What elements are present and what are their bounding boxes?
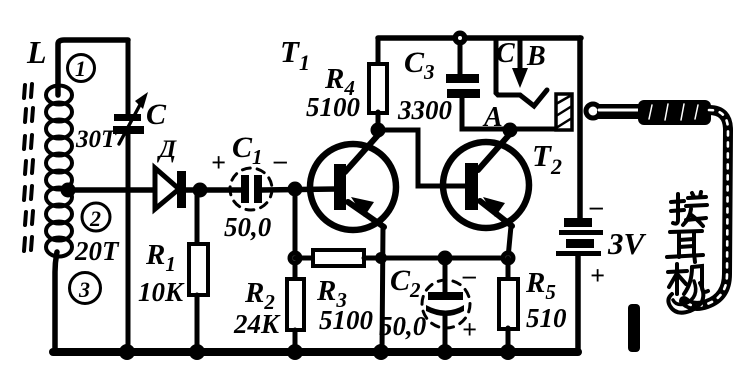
node coil tap <box>61 183 76 198</box>
svg-text:30T: 30T <box>75 126 118 153</box>
ferrite core dashes <box>24 84 33 251</box>
svg-text:50,0: 50,0 <box>379 311 427 341</box>
jack sleeve contact (hatched) <box>556 94 572 130</box>
svg-text:A: A <box>482 102 503 133</box>
node C1/R2 <box>288 182 303 197</box>
wire right side of tank circuit (upper) <box>126 40 131 114</box>
T1 collector <box>345 134 379 172</box>
svg-text:Д: Д <box>157 136 177 163</box>
terminal 1 circled <box>68 55 95 82</box>
svg-text:C: C <box>496 38 515 69</box>
label ji (machine) hanzi <box>668 264 708 294</box>
node T2 collector <box>503 123 518 138</box>
T2 emitter <box>480 201 512 226</box>
earphone cord end hooks <box>668 283 703 313</box>
svg-text:–: – <box>462 261 476 290</box>
top rail wire <box>378 35 581 41</box>
earphone plug body <box>638 100 711 125</box>
wire main signal line: tap to diode <box>66 187 155 193</box>
terminal 2 circled <box>82 203 110 231</box>
svg-text:5100: 5100 <box>306 92 361 122</box>
wire C3 bottom to jack <box>462 98 560 129</box>
node tank bottom <box>119 344 135 360</box>
earphone cord <box>684 110 728 306</box>
wire diode cathode to C1 <box>186 187 243 193</box>
wire bias line R2 to R3 <box>295 256 315 261</box>
svg-text:B: B <box>526 41 546 72</box>
jack spring contact <box>520 90 547 106</box>
variable capacitor C plates <box>113 114 144 134</box>
wire T1 collector to T2 base <box>378 130 466 186</box>
variable capacitor C arrow <box>119 101 142 144</box>
capacitor C2 electrolytic <box>443 258 448 293</box>
terminal 3 circled <box>70 273 101 304</box>
battery B 3V <box>564 218 592 227</box>
wire top of tank circuit <box>58 40 128 95</box>
right rail wire (battery to bottom) <box>575 256 581 352</box>
resistor R3 <box>313 250 364 266</box>
T1 emitter <box>348 202 384 227</box>
resistor R1 <box>195 190 200 246</box>
svg-text:20T: 20T <box>74 236 120 266</box>
node T1 collector <box>371 123 386 138</box>
right rail wire (top to battery) <box>577 38 583 219</box>
wire right side of tank circuit (lower) <box>126 134 131 352</box>
svg-text:+: + <box>462 315 477 344</box>
wire T1 emitter down <box>382 226 383 352</box>
svg-text:+: + <box>590 261 605 290</box>
svg-text:5100: 5100 <box>319 305 374 335</box>
svg-text:+: + <box>211 148 226 177</box>
ink bar mark <box>628 304 640 352</box>
label er (ear) hanzi <box>667 231 703 262</box>
diode D cathode bar <box>177 171 186 208</box>
label jie (connect) hanzi <box>671 192 707 226</box>
wire C1 to T1 base <box>262 189 336 190</box>
wire bottom left of tank circuit <box>55 252 57 348</box>
capacitor C3 <box>458 38 463 75</box>
bottom rail wire <box>53 348 578 356</box>
svg-text:C: C <box>146 98 167 131</box>
svg-text:L: L <box>26 34 47 70</box>
svg-text:510: 510 <box>526 303 567 333</box>
node T2 emitter/R5 <box>501 251 516 266</box>
resistor R2 <box>293 189 298 281</box>
earphone plug shaft <box>597 104 640 119</box>
resistor R5 <box>506 258 511 281</box>
wire T2 emitter down <box>508 226 511 258</box>
svg-text:3V: 3V <box>607 226 647 261</box>
svg-text:–: – <box>589 192 603 221</box>
node T1 emitter bottom <box>373 344 389 360</box>
transistor T2 <box>443 142 529 228</box>
inductor L coil <box>46 86 72 257</box>
resistor R4 <box>376 38 381 66</box>
jack plug tip B with arrow <box>518 40 523 70</box>
svg-text:3300: 3300 <box>397 95 453 125</box>
node diode/R1 <box>193 183 208 198</box>
diode D body <box>155 168 179 209</box>
svg-text:24K: 24K <box>233 309 281 339</box>
node R5 bottom <box>500 344 516 360</box>
node R1 bottom <box>189 344 205 360</box>
svg-text:–: – <box>273 146 287 175</box>
svg-text:50,0: 50,0 <box>224 212 272 242</box>
node R3/T1 emitter <box>375 252 387 264</box>
svg-text:1: 1 <box>75 56 86 81</box>
node R2/R3 <box>288 251 303 266</box>
wire R3 to C2/T2 emitter <box>364 256 508 261</box>
svg-text:2: 2 <box>89 206 101 231</box>
earphone plug tip <box>586 104 600 118</box>
jack contact C line <box>496 40 520 95</box>
T2 collector <box>478 130 510 170</box>
transistor T1 <box>310 144 396 230</box>
capacitor C1 electrolytic <box>230 168 272 210</box>
node C2 top <box>438 251 453 266</box>
node R2 bottom <box>287 344 303 360</box>
svg-text:10K: 10K <box>138 277 185 307</box>
svg-text:3: 3 <box>78 277 90 302</box>
node C3 top <box>453 31 468 46</box>
node C2 bottom <box>437 344 453 360</box>
